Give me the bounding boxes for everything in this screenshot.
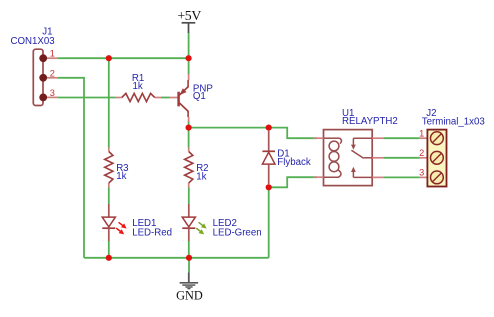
J1 pin 2 number (50, 68, 55, 78)
label D1 (277, 148, 289, 159)
wire relay pin to J2 pin3 (383, 176, 419, 178)
wire J1 pin2 to ground rail (58, 78, 84, 258)
wire collector junction to D1 junction (189, 127, 269, 129)
terminal J2 (420, 130, 447, 187)
label J2 (426, 108, 436, 119)
wire R2 to LED2 (188, 187, 190, 204)
LED LED1 (102, 204, 126, 241)
J1 pin 1 number (50, 49, 55, 59)
wire D1 bottom junction down to ground rail (268, 187, 270, 257)
diode D1 (262, 131, 275, 185)
svg-text:2: 2 (50, 68, 55, 78)
label Q1 (193, 91, 206, 102)
label R3 (116, 163, 128, 174)
label +5V (177, 8, 201, 23)
wire D1 bottom junction to relay coil bottom pin (269, 177, 317, 187)
junction LED1/rail (106, 255, 112, 261)
svg-text:CON1X03: CON1X03 (11, 36, 55, 47)
label GND (176, 289, 203, 303)
svg-text:GND: GND (176, 289, 203, 303)
transistor Q1 (170, 74, 189, 122)
junction +5V/emitter (186, 55, 192, 61)
wire ground rail (84, 257, 269, 259)
junction GND/rail (186, 255, 192, 261)
svg-text:1k: 1k (133, 81, 143, 92)
wire J1 pin3 to R1 (58, 97, 116, 99)
resistor R2 (185, 147, 193, 187)
connector J1 (33, 49, 58, 105)
svg-text:LED-Red: LED-Red (132, 227, 172, 238)
label CON1X03 (11, 36, 55, 47)
svg-text:1: 1 (50, 49, 55, 59)
value 1k (R3) (116, 171, 126, 182)
svg-text:RELAYPTH2: RELAYPTH2 (342, 116, 398, 127)
junction collector/R2 (186, 125, 192, 131)
svg-text:2: 2 (419, 148, 424, 158)
relay U1 (313, 130, 383, 186)
wire relay pin to J2 pin1 (383, 137, 419, 139)
label LED2 (213, 218, 237, 229)
value LED-Red (132, 227, 172, 238)
label LED1 (132, 218, 156, 229)
junction pin1/R3 (106, 55, 112, 61)
J2 pin 1 number (419, 129, 424, 139)
svg-text:1k: 1k (196, 171, 206, 182)
J2 pin 3 number (419, 168, 424, 178)
junction D1 top (266, 125, 272, 131)
wire R3 to LED1 (108, 187, 110, 204)
label R2 (196, 163, 208, 174)
value LED-Green (213, 227, 262, 238)
svg-text:1: 1 (419, 129, 424, 139)
wire ground rail to GND symbol (188, 258, 190, 273)
resistor R1 (116, 93, 161, 101)
label RELAYPTH2 (342, 116, 398, 127)
wire LED2 to ground rail (188, 241, 190, 258)
svg-text:Q1: Q1 (193, 91, 206, 102)
wire relay pin to J2 pin2 (383, 157, 419, 159)
svg-text:1k: 1k (116, 171, 126, 182)
wire LED1 to ground rail (108, 241, 110, 258)
wire D1 top junction to relay coil top pin (269, 128, 317, 139)
J1 pin 3 number (50, 88, 55, 98)
svg-text:3: 3 (50, 88, 55, 98)
value 1k (R2) (196, 171, 206, 182)
power symbol +5V (182, 23, 196, 33)
wire +5V symbol to emitter junction (188, 33, 190, 59)
J2 pin 2 number (419, 148, 424, 158)
label Terminal_1x03 (422, 117, 485, 128)
resistor R3 (105, 147, 113, 187)
label PNP (193, 83, 213, 94)
value 1k (R1) (133, 81, 143, 92)
wire emitter junction down to Q1 emitter (188, 58, 190, 74)
svg-text:3: 3 (419, 168, 424, 178)
wire Q1 collector to R2 (188, 121, 190, 147)
svg-text:LED-Green: LED-Green (213, 227, 262, 238)
svg-text:Terminal_1x03: Terminal_1x03 (422, 117, 485, 128)
label R1 (132, 73, 144, 84)
svg-text:Flyback: Flyback (277, 157, 311, 168)
junction D1 bottom (266, 184, 272, 190)
label J1 (42, 27, 52, 38)
value Flyback (277, 157, 311, 168)
wire R1 to Q1 base (161, 97, 170, 99)
label U1 (342, 108, 354, 119)
ground symbol (180, 273, 199, 289)
svg-text:+5V: +5V (177, 8, 201, 23)
LED LED2 (182, 204, 206, 241)
wire branch down to R3 (108, 58, 110, 147)
wire net +5V rail: J1 pin1 to emitter junction (58, 57, 189, 59)
